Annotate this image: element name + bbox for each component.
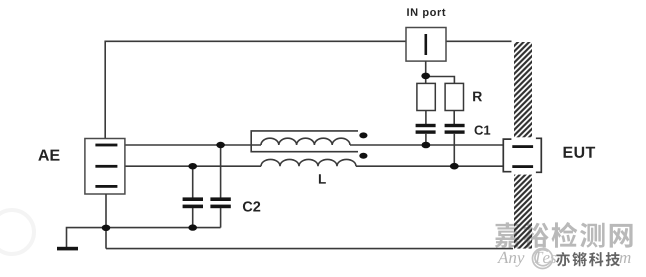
label EUT <box>564 147 596 158</box>
node: C1 left on line1 <box>422 142 431 149</box>
label C2 <box>243 201 260 211</box>
node: C2a bottom junction <box>188 224 197 230</box>
resistor R (right) <box>445 83 463 110</box>
resistor R (left) <box>417 83 435 110</box>
watermark large gray text <box>495 222 633 248</box>
capacitor C1 left plates <box>416 124 436 127</box>
capacitor C2a plates <box>183 197 203 201</box>
wire: bottom ground bus to wall <box>106 248 513 250</box>
label L <box>319 174 326 183</box>
wire: line1 choke to EUT <box>350 144 503 146</box>
watermark italic latin text <box>497 252 630 267</box>
capacitor C2b bottom lead <box>220 208 222 228</box>
node: C1 right on line2 <box>450 163 459 170</box>
label AE <box>38 150 59 161</box>
IN port box <box>406 28 446 62</box>
AE box <box>85 139 125 195</box>
EUT terminal bar 1 <box>512 145 533 148</box>
wire: R left to C1 left <box>425 111 427 125</box>
capacitor C1 left bottom lead <box>425 134 427 145</box>
EUT box right bracket <box>536 138 541 172</box>
phase dot winding 1 <box>359 132 367 138</box>
label R <box>473 92 482 102</box>
watermark small dark text <box>556 252 620 266</box>
AE terminal bar 2 <box>95 165 117 168</box>
capacitor C2a bottom lead <box>192 208 194 228</box>
wire: ground branch to C2 <box>67 228 221 248</box>
wire: R right to C1 right <box>453 111 455 125</box>
wire: line2 choke to EUT <box>356 165 503 167</box>
wire: IN port to wall <box>446 40 512 42</box>
capacitor C2a top lead <box>192 166 194 197</box>
AE terminal bar 1 <box>95 144 117 147</box>
wire: IN port to R junction <box>425 61 427 83</box>
AE terminal bar 3 <box>95 185 117 188</box>
capacitor C1 right bottom lead <box>453 134 455 166</box>
node: C2a on line2 <box>188 163 197 169</box>
ground plane wall (hatched) lower part <box>514 175 532 249</box>
IN port pin bar <box>425 34 428 55</box>
EUT terminal bar 2 <box>512 165 533 168</box>
wire: AE bottom to ground bus <box>105 194 107 249</box>
watermark logo swirl <box>533 249 553 269</box>
inductor L winding 1 <box>261 138 350 145</box>
capacitor C2b plates <box>210 197 230 201</box>
phase dot winding 2 <box>359 153 367 159</box>
label IN port <box>407 8 445 18</box>
wire: branch to R2 <box>426 77 455 84</box>
inductor L core box <box>251 131 358 152</box>
label C1 <box>475 126 491 135</box>
capacitor C2b top lead <box>220 145 222 198</box>
wire: line2 AE to choke <box>125 165 261 167</box>
ground plane wall (hatched) upper part <box>514 42 532 137</box>
wire: AE top feed up and across to IN port <box>105 41 406 138</box>
capacitor C1 right plates <box>445 124 465 127</box>
node: junction below IN port <box>421 73 430 80</box>
node: C2b on line1 <box>216 142 225 148</box>
EUT box left bracket <box>503 139 511 172</box>
wire: line1 AE to choke <box>125 144 261 146</box>
faint ghost logo bottom-left <box>0 210 34 254</box>
inductor L winding 2 <box>261 159 356 166</box>
node: ground junction <box>102 225 111 231</box>
ground symbol <box>57 247 78 251</box>
